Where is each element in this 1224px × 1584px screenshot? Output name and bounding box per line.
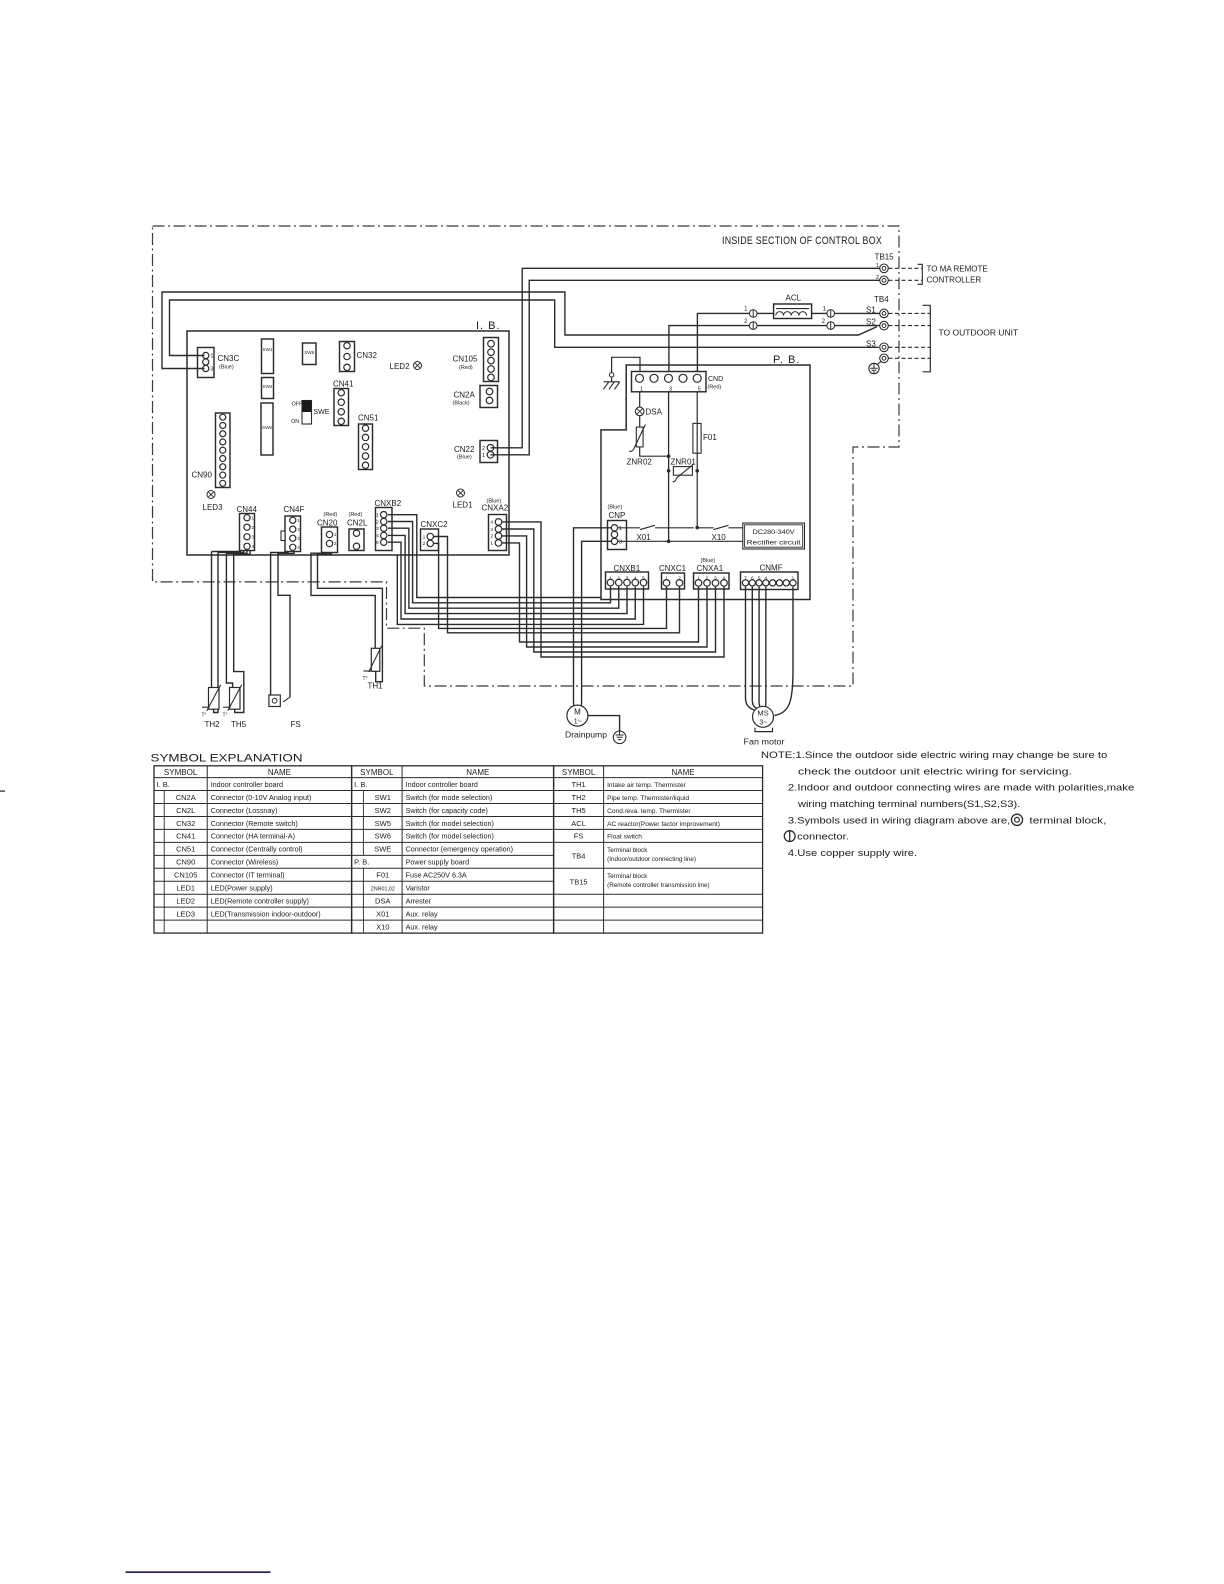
svg-text:SW6: SW6 [375,832,391,841]
svg-text:terminal block,: terminal block, [1029,815,1106,826]
svg-text:3: 3 [376,526,379,532]
svg-text:2.Indoor and outdoor connectin: 2.Indoor and outdoor connecting wires ar… [788,783,1134,794]
svg-text:(Red): (Red) [708,385,722,391]
svg-text:I. B.: I. B. [354,780,367,789]
svg-text:SYMBOL: SYMBOL [164,768,198,777]
svg-text:CN4F: CN4F [284,505,305,514]
svg-text:4: 4 [723,576,726,582]
svg-text:SW1: SW1 [375,793,391,802]
svg-text:CNXC2: CNXC2 [421,520,449,529]
svg-text:TH5: TH5 [231,720,247,729]
svg-text:LED1: LED1 [453,501,474,510]
LED1 (power supply) [457,489,465,497]
svg-text:ACL: ACL [786,294,802,303]
wire CND pin3 up to S2 row [669,326,880,372]
svg-text:DC280-340V: DC280-340V [753,530,795,536]
svg-text:CN105: CN105 [453,355,478,364]
wires CN20 to TH1 [311,553,375,649]
svg-text:Fan motor: Fan motor [744,738,785,747]
svg-text:CN90: CN90 [192,471,213,480]
svg-text:3~: 3~ [759,720,767,727]
fan motor MS 3~ [753,706,774,727]
svg-text:ZNR01,02: ZNR01,02 [371,887,395,893]
svg-text:CN51: CN51 [176,845,195,854]
svg-text:Connector (Lossnay): Connector (Lossnay) [211,806,278,815]
svg-text:S2: S2 [866,318,876,327]
svg-text:CN2L: CN2L [176,806,195,815]
connector CN90 [216,413,231,488]
svg-text:1: 1 [423,534,426,540]
svg-text:(Indoor/outdoor connecting lin: (Indoor/outdoor connecting line) [607,856,696,863]
svg-text:TB4: TB4 [874,295,889,304]
svg-text:2: 2 [423,541,426,547]
svg-text:1: 1 [876,263,879,269]
svg-text:1: 1 [482,453,485,459]
wires CN4F to float switch FS [271,552,288,696]
wire CNP pin3 to rectifier [618,540,743,542]
svg-text:(Blue): (Blue) [457,455,472,461]
svg-text:SYMBOL EXPLANATION: SYMBOL EXPLANATION [151,753,303,765]
svg-text:DSA: DSA [646,408,663,417]
svg-text:Switch (for mode selection): Switch (for mode selection) [406,793,493,802]
svg-text:CN22: CN22 [454,445,475,454]
svg-text:ZNR02: ZNR02 [627,458,653,467]
svg-text:ON: ON [291,419,299,425]
connector CN3C (Blue) [198,348,215,378]
svg-text:(Black): (Black) [453,401,470,407]
svg-text:X01: X01 [376,909,389,918]
svg-text:CN41: CN41 [176,832,195,841]
svg-text:4: 4 [765,575,768,581]
svg-text:Switch (for model selection): Switch (for model selection) [406,819,494,828]
svg-text:check the outdoor unit electri: check the outdoor unit electric wiring f… [798,766,1072,777]
svg-text:LED2: LED2 [390,362,411,371]
svg-text:Connector (Centrally control): Connector (Centrally control) [211,845,303,854]
svg-text:MS: MS [757,709,768,718]
svg-text:Rectifier circuit: Rectifier circuit [747,541,801,547]
svg-text:SW1: SW1 [263,347,273,352]
svg-text:Cond./eva. temp. Thermister: Cond./eva. temp. Thermister [607,808,691,815]
svg-text:2: 2 [482,446,485,452]
P.B. power supply board outline [601,365,810,600]
svg-text:1: 1 [609,575,612,581]
varistor ZNR02 [636,427,643,447]
svg-text:AC reactor(Power factor improv: AC reactor(Power factor improvement) [607,821,720,828]
svg-text:I. B.: I. B. [476,320,501,332]
terminal block symbol in note 3 [1011,814,1022,825]
wire CND pin3 down to X01 line [668,392,670,542]
svg-text:CN90: CN90 [176,858,195,867]
svg-text:CN2A: CN2A [454,391,476,400]
svg-text:5: 5 [376,540,379,546]
svg-text:INSIDE SECTION OF CONTROL BOX: INSIDE SECTION OF CONTROL BOX [722,235,882,247]
svg-text:CN41: CN41 [333,380,354,389]
svg-text:5: 5 [758,575,761,581]
thermistor TH5 [230,688,241,710]
svg-text:NOTE:1.Since the outdoor side: NOTE:1.Since the outdoor side electric w… [761,750,1107,761]
svg-text:SYMBOL: SYMBOL [360,768,394,777]
svg-text:Indoor controller board: Indoor controller board [406,780,478,789]
svg-text:Aux. relay: Aux. relay [406,909,438,918]
svg-text:4: 4 [376,533,379,539]
svg-text:TB15: TB15 [875,253,895,262]
svg-text:2: 2 [678,576,681,582]
svg-text:X10: X10 [376,922,389,931]
svg-text:Intake air temp. Thermister: Intake air temp. Thermister [607,782,686,789]
svg-text:Aux. relay: Aux. relay [406,922,438,931]
svg-text:SYMBOL: SYMBOL [562,768,596,777]
svg-text:CNXA2: CNXA2 [482,504,509,513]
switch SW6 [303,343,317,365]
wire ladder CNXB2 to CNXB1 (5 wires) [388,522,611,603]
svg-text:Connector (Remote switch): Connector (Remote switch) [211,819,298,828]
svg-text:CNP: CNP [609,511,626,520]
svg-text:Switch (for capacity code): Switch (for capacity code) [406,806,488,815]
svg-text:CN2L: CN2L [347,519,368,528]
svg-text:TH1: TH1 [368,682,384,691]
svg-text:4: 4 [490,520,493,526]
drainpump motor M 1~ [567,705,588,726]
svg-text:Power supply board: Power supply board [406,858,470,867]
svg-text:NAME: NAME [672,768,695,777]
svg-text:Connector (emergency operation: Connector (emergency operation) [406,845,513,854]
LED3 (transmission indoor-outdoor) [207,491,215,499]
svg-text:(Red): (Red) [349,512,363,518]
svg-text:TH2: TH2 [205,720,221,729]
svg-text:1: 1 [210,354,213,360]
svg-text:(Blue): (Blue) [219,365,234,371]
svg-text:SW2: SW2 [263,384,273,389]
svg-text:LED2: LED2 [176,897,195,906]
connector CND (Red) 5-pin [632,372,707,392]
svg-text:wiring matching terminal numbe: wiring matching terminal numbers(S1,S2,S… [797,799,1020,810]
svg-text:S1: S1 [866,306,876,315]
wires CN44 to TH2 and TH5 [212,551,241,552]
svg-text:TB15: TB15 [570,878,588,887]
switch SW5 [261,403,273,455]
wire ladder CNXC2 to CNXC1 (2 wires) [433,543,666,628]
I.B. indoor controller board outline [187,331,509,555]
svg-text:1: 1 [619,526,622,532]
svg-text:CN51: CN51 [358,414,379,423]
svg-text:SWE: SWE [314,409,330,416]
svg-text:TH2: TH2 [572,793,586,802]
svg-text:SW6: SW6 [304,350,314,355]
svg-text:6: 6 [751,575,754,581]
svg-text:CN3C: CN3C [218,354,240,363]
svg-text:SWE: SWE [374,845,391,854]
svg-text:LED(Power supply): LED(Power supply) [211,884,273,893]
rectifier circuit box DC280-340V [743,523,805,549]
svg-text:2: 2 [376,519,379,525]
svg-text:(Remote controller transmissio: (Remote controller transmission line) [607,882,710,889]
svg-text:CNXB2: CNXB2 [375,499,402,508]
switch SW1 [262,339,274,374]
svg-text:3: 3 [714,576,717,582]
svg-text:5: 5 [642,575,645,581]
svg-text:CNXA1: CNXA1 [697,564,724,573]
svg-text:LED3: LED3 [176,909,195,918]
svg-text:Terminal block: Terminal block [607,873,648,880]
arrester DSA [639,392,641,427]
switch SW2 [262,378,274,399]
svg-text:CN44: CN44 [237,505,258,514]
outer dashed enclosure: INSIDE SECTION OF CONTROL BOX [153,226,900,686]
svg-text:F01: F01 [376,871,389,880]
svg-text:T°: T° [202,713,207,719]
svg-text:LED1: LED1 [176,884,195,893]
svg-text:LED(Transmission indoor-outdoo: LED(Transmission indoor-outdoor) [211,909,321,918]
thermistor TH2 [209,688,220,710]
svg-text:SW2: SW2 [375,806,391,815]
svg-text:Terminal block: Terminal block [607,847,648,854]
svg-text:Pipe temp. Thermister/liquid: Pipe temp. Thermister/liquid [607,795,689,802]
svg-text:TO OUTDOOR UNIT: TO OUTDOOR UNIT [939,328,1019,338]
thermistor TH1 [371,648,380,671]
svg-text:2: 2 [706,576,709,582]
svg-text:S3: S3 [866,339,876,348]
wires CNMF pins to fan motor [746,587,755,710]
svg-text:ACL: ACL [571,819,586,828]
svg-text:I. B.: I. B. [157,780,170,789]
svg-text:LED3: LED3 [203,503,224,512]
svg-text:M: M [574,708,581,717]
svg-text:CNMF: CNMF [760,564,783,573]
svg-text:Varistor: Varistor [406,884,431,893]
svg-text:3: 3 [490,527,493,533]
svg-text:CN2A: CN2A [176,793,196,802]
svg-text:Float switch: Float switch [607,834,642,841]
svg-text:3.Symbols used in wiring diagr: 3.Symbols used in wiring diagram above a… [788,815,1010,826]
svg-text:1: 1 [490,541,493,547]
svg-text:LED(Remote controller supply): LED(Remote controller supply) [211,897,309,906]
svg-text:3: 3 [669,386,672,392]
svg-text:FS: FS [291,720,301,729]
svg-text:P. B.: P. B. [354,858,369,867]
svg-text:7: 7 [744,575,747,581]
wire CN3C pin3 to S2 terminal [162,292,877,369]
wire CN22 pin2 to TB15 terminal 1 [491,268,880,448]
relay contact X10 [714,525,743,529]
svg-text:2: 2 [490,534,493,540]
svg-text:1: 1 [697,576,700,582]
wires CNP pins to drainpump [574,528,612,709]
svg-text:Connector (IT terminal): Connector (IT terminal) [211,871,285,880]
svg-text:(Red): (Red) [324,512,338,518]
wire CND pin5 down to X10 junction [696,471,698,528]
svg-text:TH1: TH1 [572,780,586,789]
svg-text:NAME: NAME [268,768,291,777]
svg-text:3: 3 [619,539,622,545]
svg-text:Fuse AC250V 6.3A: Fuse AC250V 6.3A [406,871,467,880]
connector symbols on ACL wires with pin numbers [749,310,757,318]
svg-text:SW5: SW5 [375,819,391,828]
svg-text:1: 1 [640,386,643,392]
svg-text:Indoor controller board: Indoor controller board [211,780,283,789]
drainpump earth ground [588,716,620,731]
svg-text:Arrester: Arrester [406,897,432,906]
svg-text:(Red): (Red) [459,365,473,371]
wire ladder CNXA2 to CNXA1 (4 wires) [502,522,724,657]
svg-text:FS: FS [574,832,584,841]
svg-text:NAME: NAME [466,768,489,777]
svg-text:CN20: CN20 [317,519,338,528]
svg-text:CNXC1: CNXC1 [659,564,687,573]
svg-text:CN32: CN32 [176,819,195,828]
wire CND pin5 up through ACL to S1 [697,313,879,371]
svg-text:3: 3 [210,367,213,373]
svg-text:OFF: OFF [292,402,304,408]
svg-text:F01: F01 [703,433,717,442]
fuse F01 [696,392,698,471]
svg-text:Switch (for model selection): Switch (for model selection) [406,832,494,841]
svg-text:X01: X01 [637,533,652,542]
relay contact X01 [618,525,714,529]
svg-text:SW5: SW5 [262,425,272,430]
svg-text:3: 3 [626,575,629,581]
svg-text:Drainpump: Drainpump [565,731,608,740]
connector CN32 [340,342,355,372]
svg-text:TB4: TB4 [572,852,586,861]
svg-text:CN105: CN105 [174,871,197,880]
page bottom rule [126,1571,271,1573]
svg-text:1: 1 [665,576,668,582]
svg-text:4.Use copper supply wire.: 4.Use copper supply wire. [788,848,917,859]
svg-text:CND: CND [708,376,723,383]
svg-text:5: 5 [698,386,701,392]
svg-text:1: 1 [376,513,379,519]
wire from CNXB2 pin1 to P.B. board edge (earth line) [388,515,601,598]
float switch FS [269,695,280,707]
svg-text:Connector (Wireless): Connector (Wireless) [211,858,279,867]
svg-text:TO MA REMOTE: TO MA REMOTE [927,265,988,274]
svg-text:connector.: connector. [797,832,849,843]
svg-text:2: 2 [617,575,620,581]
svg-text:X10: X10 [712,533,727,542]
svg-text:1: 1 [792,575,795,581]
svg-text:T°: T° [223,713,228,719]
wire CN3C pin1 to S3 terminal [170,300,879,356]
svg-text:2: 2 [876,275,879,281]
svg-text:DSA: DSA [375,897,390,906]
connector symbol in note 3 [784,831,795,842]
svg-text:TH5: TH5 [572,806,586,815]
earth ground at CND [609,373,613,377]
svg-text:Connector (HA terminal-A): Connector (HA terminal-A) [211,832,295,841]
svg-text:P. B.: P. B. [773,354,800,366]
svg-text:Connector (0-10V Analog input): Connector (0-10V Analog input) [211,793,312,802]
svg-text:4: 4 [634,575,637,581]
svg-text:1~: 1~ [574,719,582,726]
svg-text:CONTROLLER: CONTROLLER [927,276,982,285]
wire CN22 pin1 to TB15 terminal 2 [491,280,880,455]
svg-text:CN32: CN32 [357,351,378,360]
svg-text:(Blue): (Blue) [608,505,623,511]
